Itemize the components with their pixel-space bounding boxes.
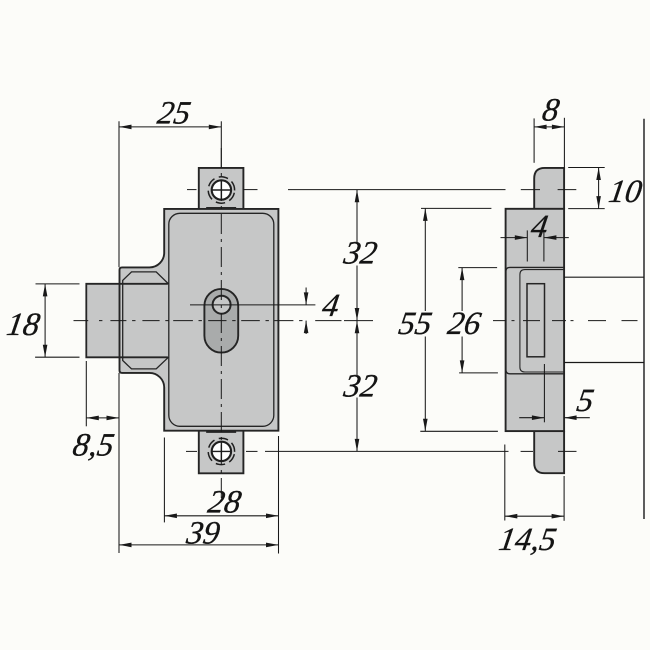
svg-text:32: 32 bbox=[341, 369, 380, 405]
svg-text:39: 39 bbox=[183, 515, 222, 551]
svg-text:8,5: 8,5 bbox=[70, 428, 116, 464]
svg-text:32: 32 bbox=[341, 236, 380, 272]
svg-text:18: 18 bbox=[4, 307, 42, 343]
svg-text:26: 26 bbox=[445, 306, 484, 342]
svg-text:25: 25 bbox=[155, 96, 193, 132]
svg-text:55: 55 bbox=[396, 306, 434, 342]
svg-text:10: 10 bbox=[606, 174, 644, 210]
svg-text:14,5: 14,5 bbox=[496, 522, 559, 558]
